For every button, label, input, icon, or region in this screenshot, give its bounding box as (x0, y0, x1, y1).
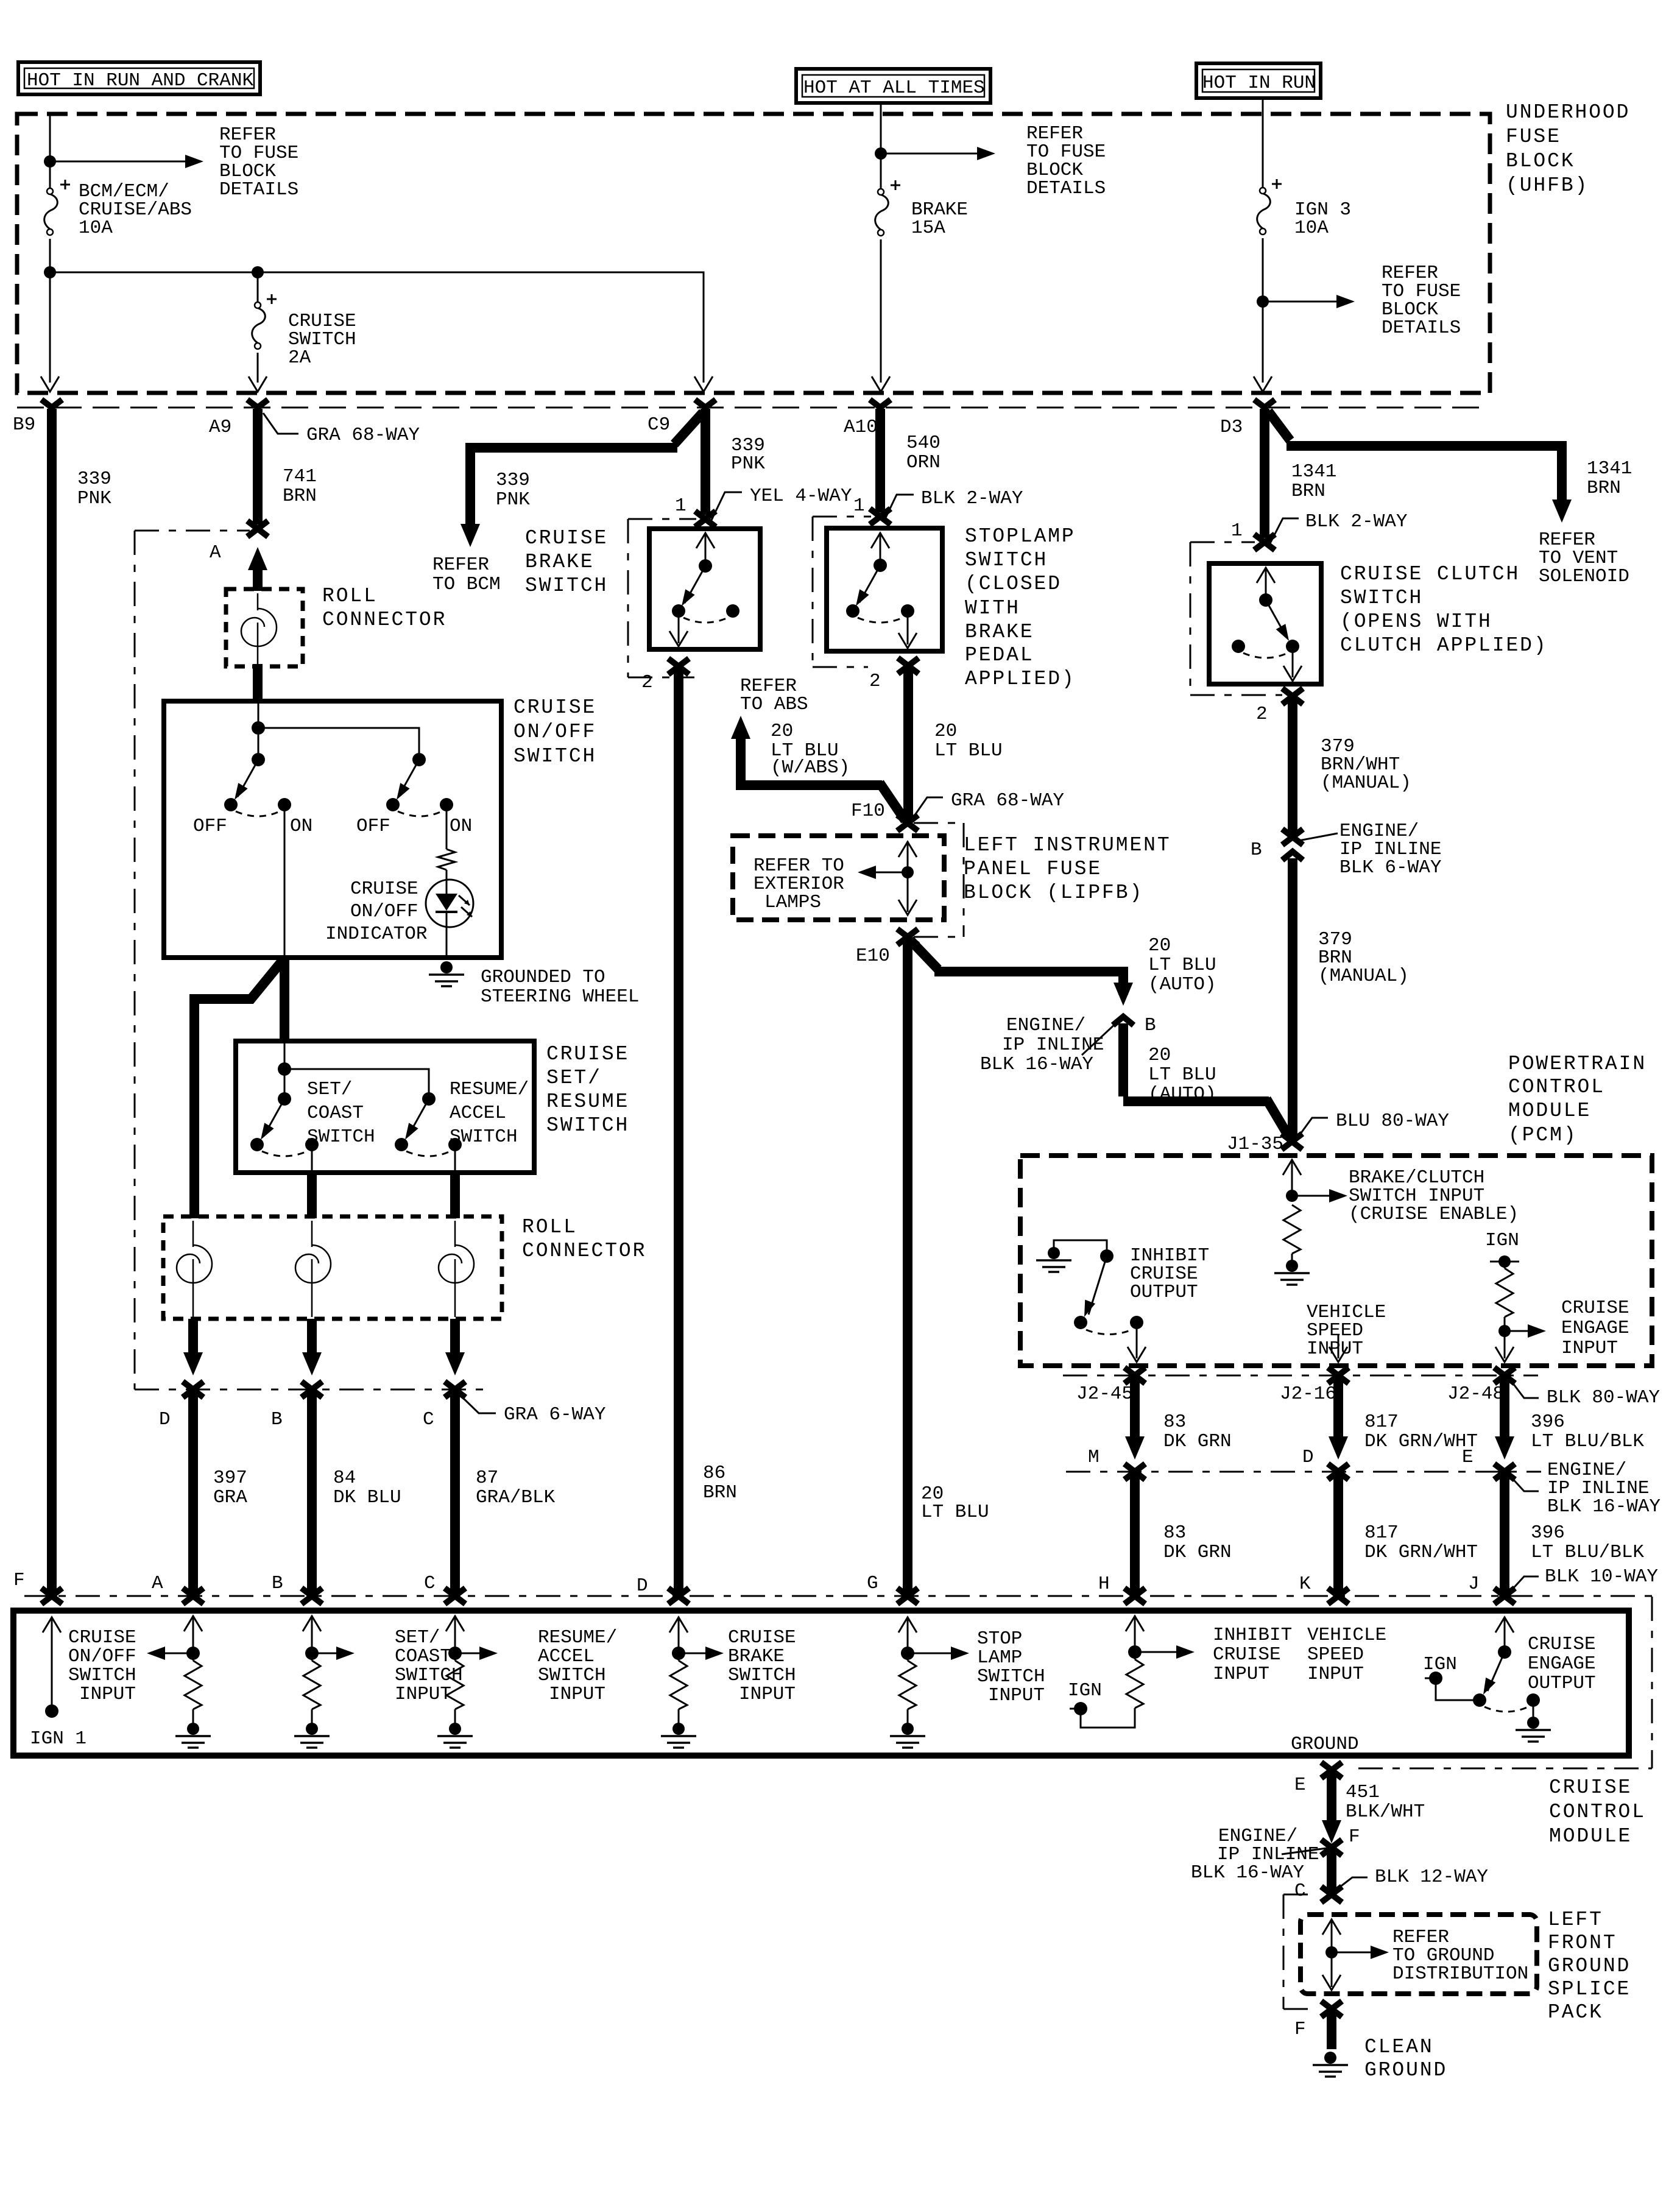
svg-text:ENGAGE: ENGAGE (1528, 1653, 1596, 1675)
svg-text:F: F (1294, 2019, 1306, 2040)
svg-text:CLEAN: CLEAN (1364, 2036, 1434, 2058)
svg-text:BRN: BRN (703, 1482, 737, 1503)
splice pack internal wire (1322, 1919, 1341, 1935)
svg-text:1341: 1341 (1587, 458, 1632, 479)
arrow into connector A9 (249, 376, 267, 392)
connector CCM pin H (1124, 1588, 1145, 1604)
svg-text:CRUISE: CRUISE (1561, 1297, 1629, 1319)
svg-text:A: A (152, 1573, 163, 1594)
wire ON contact to switch output (284, 805, 286, 955)
svg-text:INPUT: INPUT (549, 1684, 605, 1705)
svg-text:IGN 1: IGN 1 (30, 1728, 86, 1749)
ground CCM pin A (175, 1723, 211, 1748)
wire 83 DK GRN upper (1130, 1377, 1140, 1438)
svg-text:CONTROL: CONTROL (1549, 1801, 1646, 1823)
svg-text:PACK: PACK (1548, 2001, 1603, 2024)
wire 540 ORN from A10 (875, 409, 885, 512)
svg-text:SWITCH: SWITCH (538, 1665, 606, 1686)
cruise brake switch box (649, 529, 760, 649)
node junction on A10 feed (875, 147, 887, 160)
annotation arrow refer to exterior lamps (865, 872, 908, 874)
svg-text:LT BLU: LT BLU (921, 1502, 989, 1523)
svg-text:BLK 6-WAY: BLK 6-WAY (1339, 857, 1442, 878)
svg-text:(OPENS WITH: (OPENS WITH (1340, 610, 1492, 633)
wire 1341 BRN branch to vent solenoid (1268, 411, 1290, 440)
svg-text:E10: E10 (856, 945, 890, 967)
connector B9 (41, 400, 62, 408)
cruise clutch switch contacts (1257, 568, 1275, 583)
svg-text:BLOCK: BLOCK (1506, 150, 1575, 172)
svg-text:BLK 16-WAY: BLK 16-WAY (1547, 1496, 1661, 1517)
svg-text:(PCM): (PCM) (1508, 1124, 1578, 1146)
svg-text:HOT IN RUN AND CRANK: HOT IN RUN AND CRANK (27, 70, 253, 91)
wire 817 DK GRN/WHT lower (1333, 1473, 1343, 1595)
svg-text:K: K (1299, 1573, 1311, 1595)
wire on/off output down to set/resume switch (280, 955, 289, 1043)
svg-text:20: 20 (1148, 935, 1171, 956)
svg-text:ORN: ORN (906, 452, 941, 473)
svg-text:CRUISE: CRUISE (1213, 1644, 1281, 1665)
svg-text:POWERTRAIN: POWERTRAIN (1508, 1053, 1646, 1075)
svg-text:CRUISE: CRUISE (68, 1627, 136, 1648)
svg-text:A10: A10 (844, 417, 878, 438)
svg-text:GROUND: GROUND (1548, 1955, 1631, 1977)
svg-text:CONNECTOR: CONNECTOR (522, 1240, 646, 1262)
svg-text:VEHICLE: VEHICLE (1307, 1625, 1386, 1646)
stoplamp switch contacts (871, 533, 889, 548)
svg-text:BRAKE: BRAKE (728, 1646, 785, 1667)
svg-text:OUTPUT: OUTPUT (1528, 1673, 1596, 1694)
svg-text:DETAILS: DETAILS (1026, 178, 1106, 199)
svg-text:HOT AT ALL TIMES: HOT AT ALL TIMES (803, 77, 985, 99)
fuse BRAKE 15A (875, 189, 889, 236)
svg-text:D: D (1302, 1447, 1314, 1468)
arrow into connector C9 (694, 376, 713, 392)
wire into roll connector (248, 547, 267, 570)
wires from set/resume to roll connector (312, 1173, 455, 1218)
connector B engine/IP inline BLK 16-WAY (1113, 1017, 1134, 1025)
svg-text:GRA 68-WAY: GRA 68-WAY (306, 425, 420, 446)
svg-text:339: 339 (496, 470, 530, 491)
wire 339 PNK from B9 to CCM pin F (47, 409, 57, 1595)
svg-text:ON: ON (290, 816, 312, 837)
svg-text:F: F (1349, 1826, 1360, 1848)
ground CCM pin D (661, 1723, 696, 1748)
svg-text:INPUT: INPUT (1213, 1664, 1269, 1685)
svg-text:LAMP: LAMP (977, 1647, 1022, 1668)
node A steering-wheel inline connector (247, 521, 268, 537)
PCM vehicle speed input leg (1307, 1302, 1386, 1360)
svg-text:LT BLU: LT BLU (1148, 955, 1216, 976)
connector B engine/IP inline BLK 6-WAY (1282, 829, 1303, 845)
svg-text:OFF: OFF (356, 816, 390, 837)
svg-text:RESUME/: RESUME/ (538, 1627, 617, 1648)
connector BLK 2-WAY stoplamp (870, 509, 891, 524)
label UNDERHOOD FUSE BLOCK (UHFB) (1506, 101, 1630, 197)
svg-text:LT BLU: LT BLU (1148, 1064, 1216, 1086)
svg-text:BLK 10-WAY: BLK 10-WAY (1545, 1566, 1658, 1587)
resistor for indicator (446, 805, 448, 849)
CCM set/coast switch input leg B (303, 1616, 321, 1631)
svg-text:J1-35: J1-35 (1227, 1134, 1283, 1155)
svg-text:397: 397 (213, 1467, 247, 1489)
svg-text:RESUME: RESUME (546, 1090, 629, 1113)
svg-text:BRAKE: BRAKE (965, 621, 1034, 643)
svg-text:CRUISE: CRUISE (350, 878, 418, 900)
roll connector (upper) dashed box (226, 589, 303, 666)
svg-text:INHIBIT: INHIBIT (1213, 1625, 1292, 1646)
svg-text:STOPLAMP: STOPLAMP (965, 525, 1076, 548)
svg-text:BRN: BRN (1291, 481, 1325, 502)
resistor in PCM brake/clutch input (1283, 1205, 1301, 1254)
set/coast switch (278, 1092, 291, 1106)
CCM resume/accel switch input leg C (446, 1616, 464, 1631)
wire D3 feed from HOT IN RUN (1262, 98, 1264, 383)
wire 396 LT BLU/BLK upper (1500, 1377, 1509, 1438)
powertrain control module PCM dashed box (1020, 1156, 1652, 1366)
arrow into connector A10 (872, 376, 890, 392)
svg-text:CRUISE: CRUISE (525, 527, 608, 549)
node IGN feed for inhibit leg (1074, 1702, 1087, 1715)
svg-text:TO ABS: TO ABS (740, 694, 808, 715)
svg-text:ACCEL: ACCEL (538, 1646, 595, 1667)
fuse CRUISE SWITCH 2A (257, 272, 259, 383)
svg-text:PNK: PNK (496, 489, 530, 510)
header box HOT IN RUN AND CRANK (18, 62, 260, 94)
svg-text:BLK 80-WAY: BLK 80-WAY (1547, 1387, 1660, 1408)
svg-text:WITH: WITH (965, 597, 1020, 620)
wire 339 PNK from C9 to cruise brake switch (701, 409, 710, 515)
connector GRA 6-WAY row (135, 1389, 487, 1391)
svg-text:IGN: IGN (1423, 1654, 1457, 1675)
svg-text:CRUISE: CRUISE (546, 1043, 629, 1065)
wire 397 branch jog to roll connector (194, 959, 284, 1218)
ground CCM pin G (890, 1723, 925, 1748)
svg-text:396: 396 (1531, 1522, 1565, 1544)
svg-text:817: 817 (1364, 1522, 1399, 1544)
annotation arrow refer to fuse block details (left) (50, 161, 196, 163)
connector D3 (1254, 400, 1275, 408)
CCM cruise brake switch input leg D (669, 1617, 688, 1633)
svg-text:PNK: PNK (77, 488, 111, 509)
svg-text:H: H (1098, 1573, 1110, 1595)
connector BLK 2-WAY clutch (1254, 534, 1275, 550)
wire 20 LT BLU stoplamp output (903, 667, 913, 819)
node junction on D3 feed (1257, 295, 1269, 308)
svg-text:396: 396 (1531, 1411, 1565, 1433)
svg-text:APPLIED): APPLIED) (965, 668, 1076, 690)
svg-text:RESUME/: RESUME/ (450, 1079, 529, 1100)
svg-text:(CLOSED: (CLOSED (965, 573, 1062, 595)
svg-text:SWITCH: SWITCH (728, 1665, 796, 1686)
svg-text:(CRUISE ENABLE): (CRUISE ENABLE) (1349, 1204, 1519, 1225)
inhibit cruise output switch in PCM (1036, 1247, 1071, 1272)
pointer label GRA 68-WAY at A9 (263, 413, 298, 434)
connector CCM pin D (668, 1588, 689, 1604)
resume/accel switch (422, 1092, 436, 1106)
svg-text:SWITCH: SWITCH (514, 745, 596, 768)
svg-text:BLU 80-WAY: BLU 80-WAY (1336, 1110, 1449, 1132)
svg-text:SWITCH: SWITCH (450, 1126, 518, 1148)
svg-text:ENGINE/: ENGINE/ (1006, 1015, 1085, 1036)
stoplamp switch box (827, 528, 942, 651)
svg-text:GRA/BLK: GRA/BLK (476, 1487, 556, 1508)
svg-text:REFER: REFER (432, 554, 489, 576)
svg-text:2: 2 (641, 672, 653, 693)
svg-text:540: 540 (906, 432, 941, 454)
svg-text:SPLICE: SPLICE (1548, 1978, 1631, 2000)
svg-text:(W/ABS): (W/ABS) (771, 757, 850, 778)
svg-text:GRA 68-WAY: GRA 68-WAY (951, 790, 1064, 811)
svg-text:OUTPUT: OUTPUT (1130, 1282, 1198, 1303)
svg-text:E: E (1462, 1447, 1474, 1468)
connector CCM pin A (183, 1588, 203, 1604)
svg-text:OFF: OFF (193, 816, 227, 837)
ground in PCM (1274, 1260, 1310, 1285)
svg-text:UNDERHOOD: UNDERHOOD (1506, 101, 1630, 124)
svg-text:E: E (1294, 1774, 1306, 1796)
svg-text:MODULE: MODULE (1508, 1100, 1591, 1122)
svg-text:B: B (271, 1409, 283, 1430)
wire to BLK 12-WAY (1327, 1849, 1336, 1891)
svg-text:2A: 2A (288, 347, 311, 369)
CCM inhibit cruise input leg H (1126, 1616, 1144, 1631)
svg-text:J: J (1468, 1573, 1480, 1595)
svg-text:ON/OFF: ON/OFF (68, 1646, 136, 1667)
svg-text:451: 451 (1346, 1782, 1380, 1803)
svg-text:20: 20 (1148, 1045, 1171, 1066)
svg-text:INPUT: INPUT (395, 1684, 451, 1705)
svg-text:LEFT: LEFT (1548, 1908, 1603, 1931)
svg-text:BLK 12-WAY: BLK 12-WAY (1375, 1866, 1488, 1888)
connector CCM pin E (1321, 1762, 1342, 1778)
svg-text:GRA: GRA (213, 1487, 247, 1508)
svg-text:LAMPS: LAMPS (764, 892, 821, 913)
wire 84 DK BLU to CCM pin B (307, 1391, 317, 1595)
svg-text:ON/OFF: ON/OFF (514, 721, 596, 743)
svg-text:PEDAL: PEDAL (965, 644, 1034, 666)
connector C9 (695, 400, 716, 408)
on/off switch internal feed (258, 704, 259, 728)
svg-text:TO BCM: TO BCM (432, 574, 501, 595)
CCM stop lamp switch input leg G (898, 1617, 917, 1633)
connector CCM pin C (445, 1588, 465, 1604)
svg-text:2: 2 (869, 671, 881, 692)
svg-text:COAST: COAST (307, 1103, 364, 1124)
wire 451 BLK/WHT (1327, 1771, 1336, 1821)
svg-text:BRN: BRN (1587, 478, 1621, 499)
PCM brake/clutch switch input leg (1283, 1160, 1301, 1175)
svg-text:C: C (424, 1573, 436, 1594)
svg-text:DETAILS: DETAILS (219, 179, 298, 200)
connector pin 2 stoplamp switch (898, 658, 919, 674)
fuse BCM/ECM/CRUISE/ABS 10A (44, 188, 58, 235)
svg-text:ACCEL: ACCEL (450, 1103, 506, 1124)
wire 86 BRN to CCM pin D (674, 668, 683, 1595)
svg-text:20: 20 (771, 721, 793, 742)
svg-text:PNK: PNK (731, 453, 765, 475)
svg-text:IP INLINE: IP INLINE (1002, 1034, 1104, 1056)
svg-text:INPUT: INPUT (79, 1684, 136, 1705)
svg-text:GROUND: GROUND (1291, 1734, 1359, 1755)
CCM vehicle speed input label K (1307, 1625, 1386, 1685)
wire 817 DK GRN/WHT upper (1333, 1377, 1343, 1438)
connector A9 (247, 400, 268, 408)
svg-text:DK GRN: DK GRN (1163, 1542, 1232, 1563)
connector CCM pin B (302, 1588, 322, 1604)
svg-text:1: 1 (1231, 520, 1243, 542)
wire 397 GRA to CCM pin A (188, 1391, 198, 1595)
connector CCM pin G (897, 1588, 918, 1604)
svg-text:D3: D3 (1220, 417, 1243, 438)
ground CCM pin B (294, 1723, 330, 1748)
svg-text:ROLL: ROLL (322, 585, 378, 607)
arrow into connector D3 (1254, 376, 1272, 392)
wire bus to C9 (50, 272, 704, 383)
wire 83 DK GRN lower (1130, 1473, 1140, 1595)
ground CCM pin C (437, 1723, 473, 1748)
fuse IGN 3 10A (1257, 188, 1271, 235)
svg-text:87: 87 (476, 1467, 498, 1489)
svg-text:SWITCH: SWITCH (68, 1665, 136, 1686)
svg-text:CRUISE: CRUISE (1549, 1776, 1632, 1799)
svg-text:DK GRN/WHT: DK GRN/WHT (1364, 1431, 1478, 1452)
svg-text:817: 817 (1364, 1411, 1399, 1433)
svg-text:B: B (1251, 839, 1262, 861)
svg-text:(MANUAL): (MANUAL) (1318, 966, 1409, 987)
svg-text:GRA 6-WAY: GRA 6-WAY (504, 1404, 606, 1425)
wires out of roll connector (188, 1319, 198, 1354)
svg-text:B: B (1145, 1015, 1156, 1036)
svg-text:339: 339 (77, 468, 111, 490)
svg-text:A9: A9 (209, 417, 231, 438)
left instrument panel fuse block LIPFB dashed box (733, 836, 944, 920)
connector CCM pin F (41, 1588, 62, 1604)
svg-text:F10: F10 (851, 800, 885, 822)
svg-text:2: 2 (1256, 704, 1268, 725)
svg-text:F: F (13, 1570, 25, 1591)
LIPFB internal wire (898, 842, 917, 857)
CCM cruise on/off switch input leg A (184, 1616, 202, 1631)
node junction on B9 feed (44, 155, 56, 168)
on/off switch pole 2 (412, 753, 426, 766)
wire B9 feed inside UHFB (49, 116, 51, 383)
node junction at cruise switch fuse tap (252, 266, 264, 278)
svg-text:ENGAGE: ENGAGE (1561, 1318, 1629, 1339)
annotation REFER TO BCM branch from C9 (674, 412, 703, 444)
cruise clutch switch box (1209, 563, 1321, 684)
connector CCM pin K (1328, 1588, 1349, 1604)
svg-text:DK BLU: DK BLU (333, 1487, 401, 1508)
svg-text:BLK/WHT: BLK/WHT (1346, 1801, 1425, 1823)
svg-text:CRUISE: CRUISE (728, 1627, 796, 1648)
svg-text:CONNECTOR: CONNECTOR (322, 609, 446, 631)
svg-text:G: G (867, 1573, 878, 1594)
connector row engine/IP inline BLK 16-WAY (1066, 1471, 1541, 1473)
UHFB output connector row (17, 407, 1490, 409)
LED cruise on/off indicator (426, 880, 473, 927)
svg-text:LT BLU/BLK: LT BLU/BLK (1531, 1542, 1644, 1563)
svg-text:STEERING WHEEL: STEERING WHEEL (481, 986, 639, 1008)
svg-text:LT BLU: LT BLU (934, 740, 1003, 761)
svg-text:LT BLU/BLK: LT BLU/BLK (1531, 1431, 1644, 1452)
CCM pin F IGN 1 leg (43, 1617, 61, 1633)
wire 20 LT BLU from E10 to CCM pin G (903, 938, 912, 1595)
wire 379 BRN (MANUAL) to PCM J1-35 (1288, 858, 1297, 1138)
cruise on/off switch box (164, 701, 501, 958)
svg-text:DK GRN: DK GRN (1163, 1431, 1232, 1452)
svg-text:BLK 2-WAY: BLK 2-WAY (921, 488, 1023, 509)
connector A10 (870, 400, 891, 408)
svg-text:D: D (159, 1409, 171, 1430)
svg-text:INPUT: INPUT (739, 1684, 796, 1705)
arrow into connector B9 (41, 376, 59, 392)
svg-text:BLK 2-WAY: BLK 2-WAY (1305, 511, 1408, 532)
svg-text:C9: C9 (648, 414, 670, 436)
svg-text:SWITCH: SWITCH (395, 1665, 463, 1686)
svg-text:83: 83 (1163, 1522, 1186, 1544)
ground grounded to steering wheel (429, 961, 464, 986)
svg-text:ON/OFF: ON/OFF (350, 901, 418, 922)
svg-text:SWITCH: SWITCH (977, 1666, 1045, 1687)
connector J2-16 (1328, 1368, 1349, 1383)
svg-text:SET/: SET/ (395, 1627, 440, 1648)
svg-text:84: 84 (333, 1467, 356, 1489)
svg-text:SPEED: SPEED (1307, 1644, 1364, 1665)
connector engine/IP inline BLK 16-WAY (ground path) (1321, 1840, 1342, 1855)
svg-text:20: 20 (934, 721, 957, 742)
svg-text:INDICATOR: INDICATOR (325, 923, 427, 945)
svg-text:FUSE: FUSE (1506, 125, 1561, 148)
svg-text:CONTROL: CONTROL (1508, 1076, 1605, 1098)
svg-text:1: 1 (853, 495, 865, 517)
svg-text:BRN: BRN (283, 485, 317, 507)
svg-text:GROUNDED TO: GROUNDED TO (481, 967, 605, 988)
svg-text:(UHFB): (UHFB) (1506, 174, 1589, 197)
svg-text:M: M (1088, 1447, 1099, 1468)
svg-text:CRUISE: CRUISE (1528, 1634, 1596, 1655)
svg-text:86: 86 (703, 1463, 725, 1484)
svg-text:BLOCK (LIPFB): BLOCK (LIPFB) (964, 881, 1143, 904)
svg-text:SWITCH: SWITCH (525, 574, 608, 597)
svg-text:CRUISE: CRUISE (514, 696, 596, 719)
svg-text:B9: B9 (13, 414, 35, 436)
CCM cruise engage output switch J (1495, 1617, 1514, 1633)
connector CCM pin J (1494, 1588, 1515, 1604)
roll connector (lower) dashed box (163, 1216, 502, 1319)
ground CCM engage switch (1533, 1700, 1534, 1718)
svg-text:D: D (637, 1575, 648, 1597)
wire to clean ground (1327, 2010, 1336, 2049)
svg-text:DISTRIBUTION: DISTRIBUTION (1392, 1963, 1528, 1985)
wire 20 LT BLU (AUTO) lower to PCM J1-35 (1123, 1023, 1269, 1101)
wire 396 LT BLU/BLK lower (1500, 1473, 1509, 1595)
svg-text:B: B (272, 1573, 283, 1594)
svg-text:SET/: SET/ (546, 1067, 602, 1089)
CCM right envelope boundary (1358, 1597, 1652, 1768)
svg-text:C: C (1294, 1880, 1306, 1902)
svg-text:DK GRN/WHT: DK GRN/WHT (1364, 1542, 1478, 1563)
svg-text:COAST: COAST (395, 1646, 451, 1667)
svg-text:10A: 10A (79, 217, 113, 239)
svg-text:BLK 16-WAY: BLK 16-WAY (1191, 1862, 1304, 1883)
wire 87 GRA/BLK to CCM pin C (450, 1391, 460, 1595)
svg-text:15A: 15A (911, 217, 945, 239)
svg-text:BRAKE: BRAKE (525, 551, 595, 573)
left front ground splice pack dashed box (1301, 1915, 1537, 1994)
wire A10 feed from HOT AT ALL TIMES (880, 103, 882, 383)
svg-text:CLUTCH APPLIED): CLUTCH APPLIED) (1340, 634, 1548, 657)
